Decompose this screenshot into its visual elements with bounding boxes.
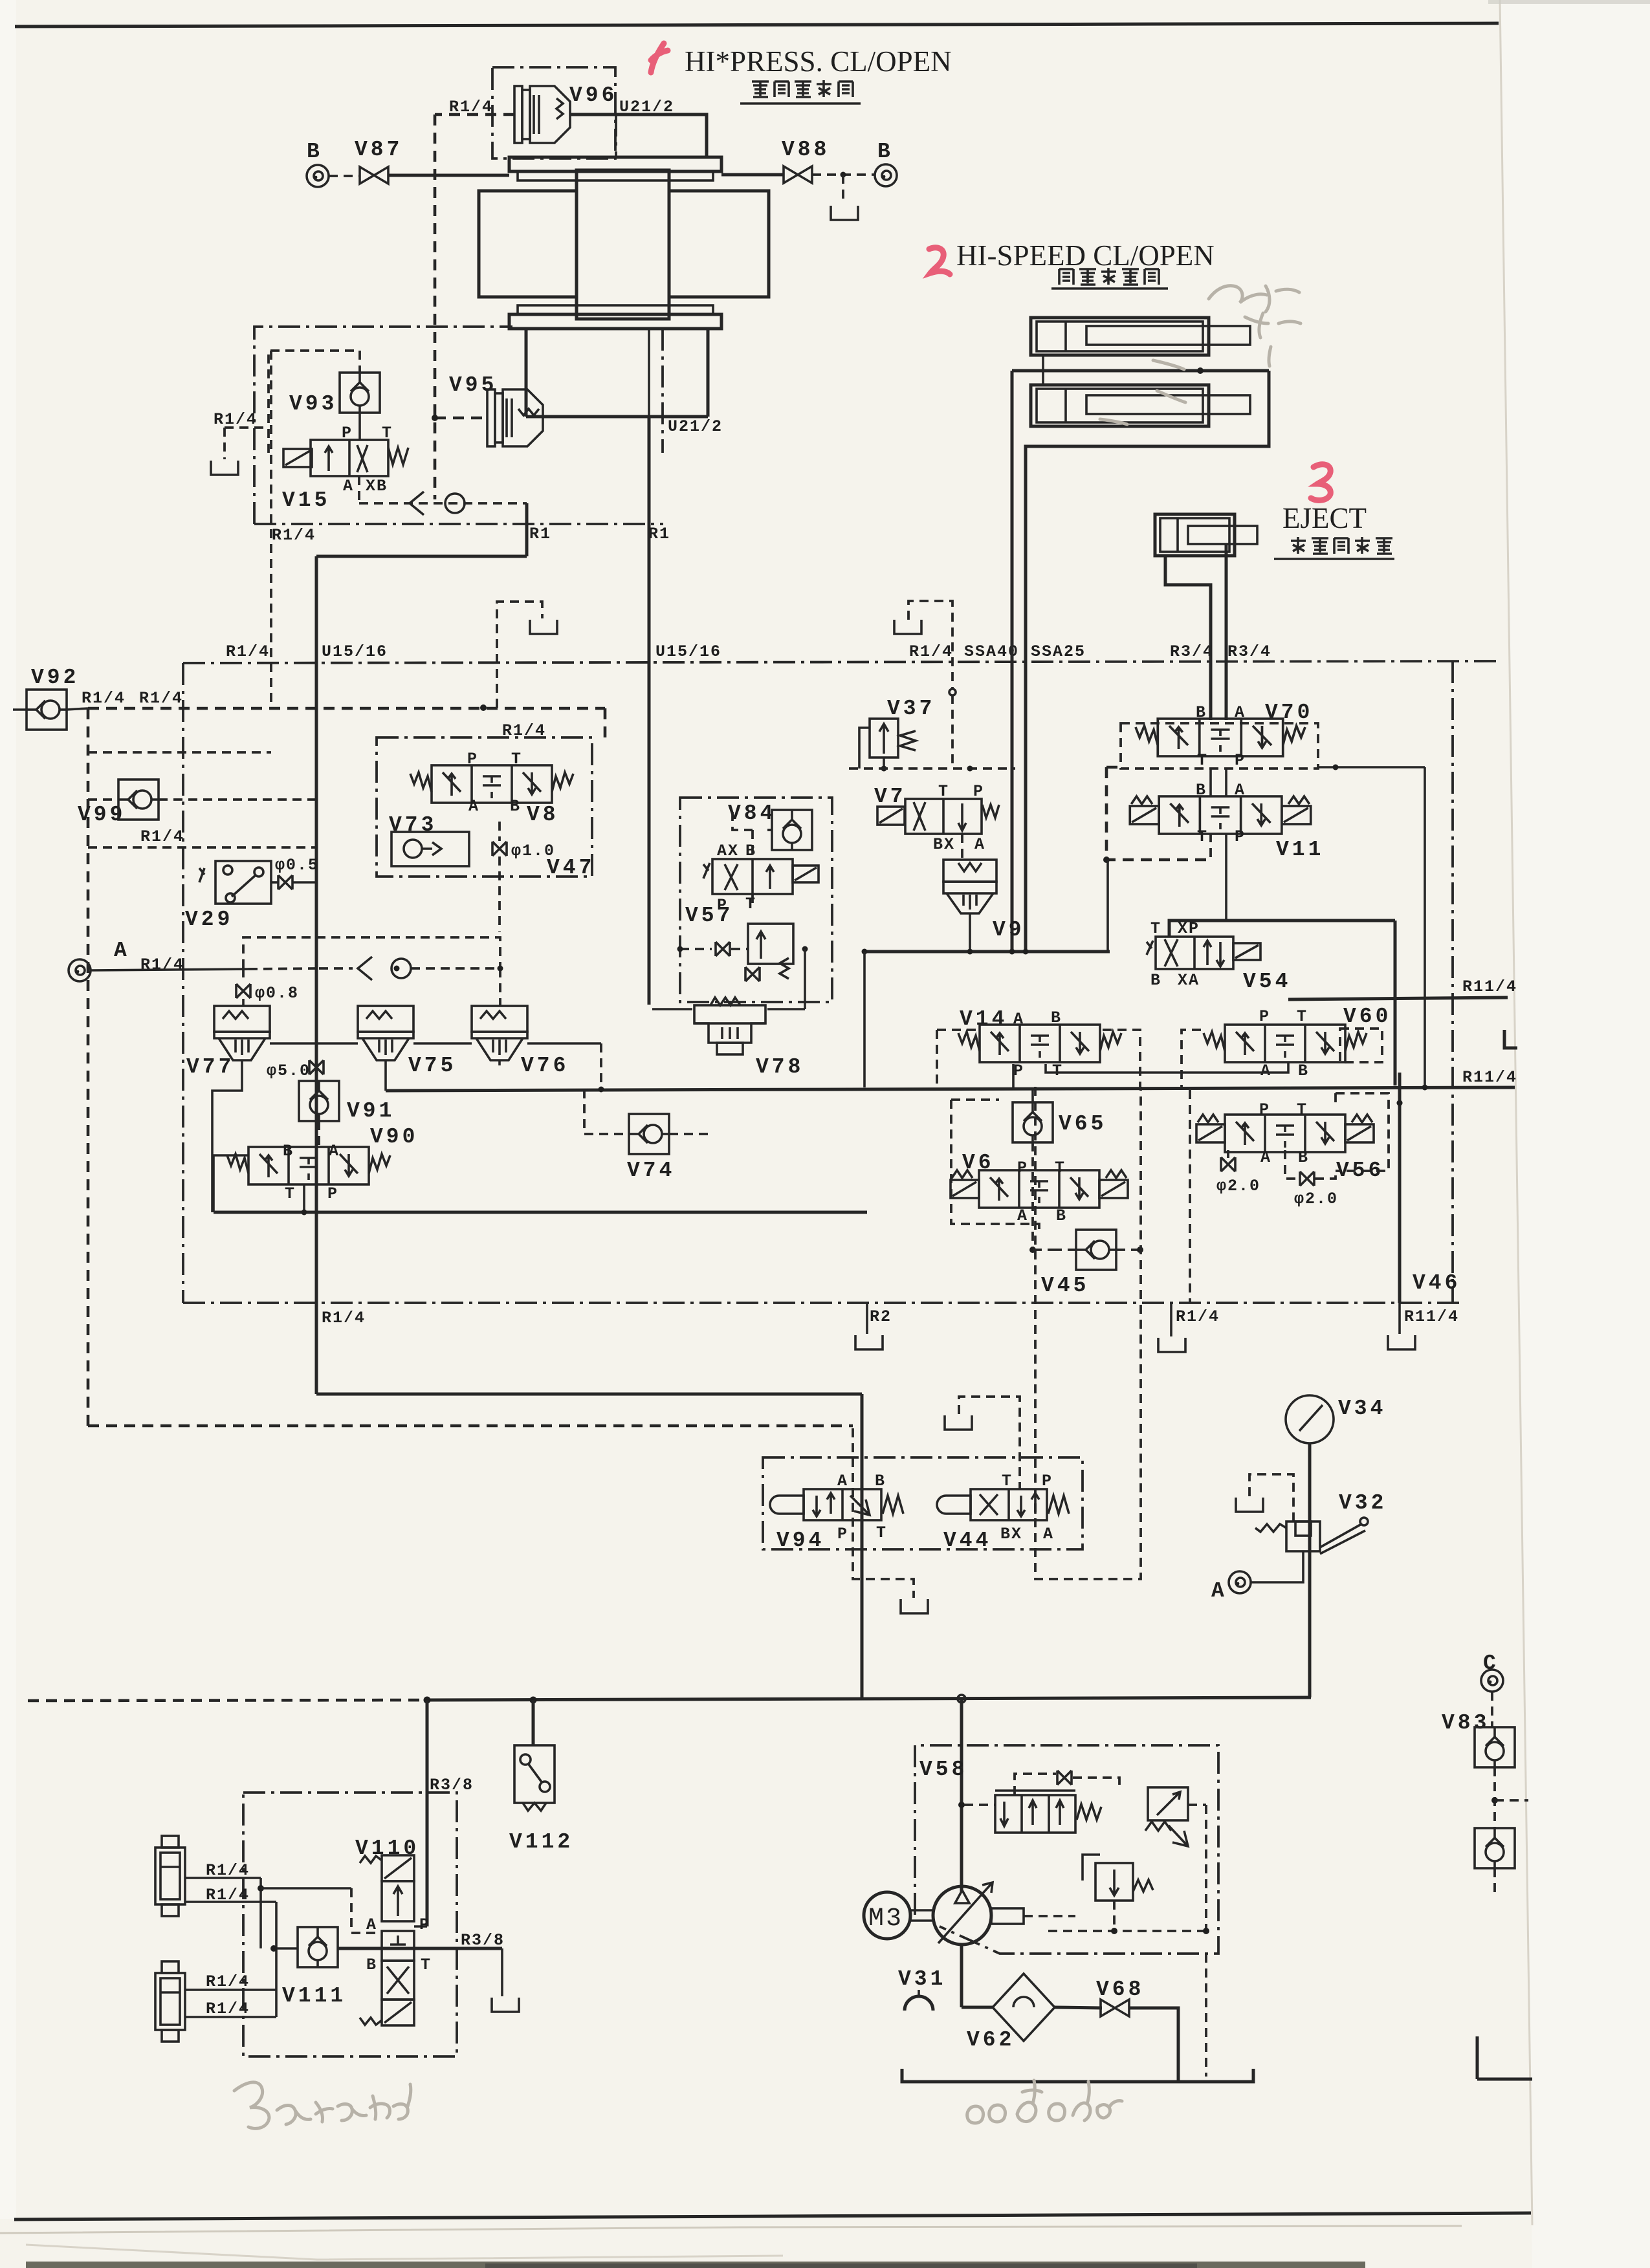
- svg-text:B: B: [1056, 1206, 1067, 1225]
- svg-text:B: B: [510, 797, 521, 816]
- svg-text:A: A: [1013, 1010, 1024, 1029]
- svg-text:B: B: [283, 1142, 294, 1161]
- svg-text:R3/8: R3/8: [461, 1931, 505, 1950]
- svg-text:V76: V76: [521, 1054, 569, 1078]
- svg-text:HI*PRESS. CL/OPEN: HI*PRESS. CL/OPEN: [685, 45, 952, 78]
- svg-text:V112: V112: [509, 1830, 573, 1854]
- svg-text:R11/4: R11/4: [1404, 1307, 1459, 1326]
- svg-text:V111: V111: [282, 1984, 346, 2008]
- svg-text:T: T: [1197, 827, 1208, 846]
- svg-text:B: B: [1196, 781, 1207, 800]
- svg-text:P: P: [1017, 1159, 1028, 1177]
- svg-text:V31: V31: [898, 1967, 946, 1991]
- svg-text:P: P: [717, 896, 728, 915]
- svg-text:P: P: [419, 1915, 430, 1934]
- svg-text:V37: V37: [887, 697, 935, 721]
- svg-text:HI-SPEED CL/OPEN: HI-SPEED CL/OPEN: [956, 239, 1215, 272]
- svg-text:R1: R1: [648, 525, 670, 543]
- svg-text:V60: V60: [1343, 1005, 1391, 1029]
- svg-text:T: T: [382, 424, 393, 442]
- svg-text:V93: V93: [289, 392, 337, 416]
- svg-text:T: T: [876, 1523, 887, 1542]
- svg-text:T: T: [938, 782, 949, 801]
- svg-text:R1/4: R1/4: [140, 955, 184, 974]
- svg-text:φ0.8: φ0.8: [255, 984, 299, 1003]
- svg-text:R1/4: R1/4: [502, 721, 546, 740]
- svg-text:V62: V62: [967, 2028, 1015, 2052]
- svg-text:A: A: [366, 1915, 377, 1934]
- svg-text:T: T: [1297, 1007, 1308, 1026]
- svg-text:P: P: [973, 782, 984, 801]
- svg-text:V7: V7: [874, 785, 907, 809]
- svg-text:T: T: [1197, 751, 1208, 770]
- svg-text:B: B: [1298, 1148, 1309, 1167]
- svg-text:A: A: [1235, 703, 1246, 722]
- svg-text:XP: XP: [1178, 919, 1200, 938]
- svg-text:R1/4: R1/4: [909, 642, 953, 661]
- svg-text:AX: AX: [717, 842, 739, 860]
- svg-text:P: P: [1042, 1472, 1053, 1490]
- svg-text:P: P: [1235, 751, 1246, 770]
- svg-text:A: A: [329, 1142, 340, 1161]
- svg-text:φ1.0: φ1.0: [511, 842, 555, 860]
- svg-text:T: T: [1002, 1472, 1013, 1490]
- svg-text:R1/4: R1/4: [140, 827, 184, 846]
- svg-text:V68: V68: [1096, 1978, 1144, 2001]
- svg-text:V44: V44: [943, 1529, 991, 1553]
- svg-text:R3/8: R3/8: [430, 1776, 474, 1794]
- svg-text:T: T: [421, 1956, 432, 1974]
- svg-text:φ0.5: φ0.5: [275, 856, 319, 875]
- svg-text:A: A: [1260, 1062, 1271, 1080]
- svg-text:B: B: [1150, 971, 1161, 990]
- svg-text:A: A: [1211, 1579, 1227, 1603]
- svg-text:V95: V95: [449, 373, 497, 397]
- svg-text:φ2.0: φ2.0: [1294, 1190, 1338, 1208]
- svg-text:V84: V84: [728, 801, 776, 825]
- svg-text:R1/4: R1/4: [1176, 1307, 1220, 1326]
- svg-text:V91: V91: [347, 1099, 395, 1123]
- svg-text:V58: V58: [919, 1758, 967, 1782]
- svg-text:R1/4: R1/4: [226, 642, 270, 661]
- svg-text:φ5.0: φ5.0: [267, 1062, 311, 1080]
- svg-text:V77: V77: [186, 1055, 234, 1079]
- svg-text:T: T: [285, 1184, 296, 1203]
- svg-text:M3: M3: [868, 1904, 903, 1934]
- svg-text:R1/4: R1/4: [139, 689, 183, 708]
- svg-text:A: A: [1017, 1206, 1028, 1225]
- svg-text:A: A: [1043, 1525, 1054, 1543]
- svg-text:P: P: [467, 750, 478, 769]
- svg-text:R11/4: R11/4: [1462, 1068, 1517, 1087]
- svg-text:T: T: [745, 895, 756, 913]
- svg-text:P: P: [1235, 827, 1246, 846]
- svg-text:V32: V32: [1339, 1491, 1387, 1515]
- svg-text:V73: V73: [389, 813, 437, 837]
- svg-text:B: B: [366, 1956, 377, 1974]
- svg-text:V45: V45: [1041, 1274, 1089, 1298]
- svg-text:V74: V74: [627, 1159, 675, 1183]
- svg-text:P: P: [1259, 1007, 1270, 1026]
- svg-text:U15/16: U15/16: [322, 642, 388, 661]
- svg-text:A: A: [974, 835, 985, 854]
- svg-text:P: P: [837, 1525, 848, 1543]
- svg-text:R1/4: R1/4: [82, 689, 126, 708]
- svg-text:φ2.0: φ2.0: [1216, 1177, 1260, 1195]
- svg-text:U15/16: U15/16: [655, 642, 721, 661]
- svg-text:V14: V14: [960, 1007, 1007, 1031]
- svg-text:V46: V46: [1413, 1271, 1460, 1295]
- svg-text:U21/2: U21/2: [668, 417, 723, 436]
- svg-text:R1/4: R1/4: [214, 410, 258, 429]
- svg-text:R3/4: R3/4: [1227, 642, 1271, 661]
- svg-text:T: T: [511, 750, 522, 769]
- svg-text:A: A: [1260, 1148, 1271, 1167]
- svg-text:V75: V75: [408, 1054, 456, 1078]
- svg-text:V15: V15: [282, 488, 330, 512]
- svg-text:V8: V8: [527, 803, 559, 827]
- svg-text:P: P: [1259, 1100, 1270, 1119]
- svg-text:V92: V92: [31, 666, 79, 690]
- svg-text:T: T: [1150, 919, 1161, 938]
- svg-text:V54: V54: [1243, 970, 1291, 994]
- svg-text:V83: V83: [1442, 1711, 1490, 1735]
- svg-text:SSA25: SSA25: [1031, 642, 1086, 661]
- svg-text:XA: XA: [1178, 971, 1200, 990]
- svg-text:R2: R2: [870, 1307, 892, 1326]
- svg-text:V88: V88: [782, 138, 830, 162]
- svg-text:R1/4: R1/4: [206, 2000, 250, 2018]
- svg-text:EJECT: EJECT: [1282, 502, 1367, 534]
- svg-text:P: P: [327, 1184, 338, 1203]
- svg-text:BX: BX: [1000, 1525, 1022, 1543]
- svg-text:R1/4: R1/4: [272, 526, 316, 545]
- svg-text:T: T: [1055, 1159, 1066, 1177]
- svg-text:A: A: [343, 477, 354, 496]
- svg-text:T: T: [1297, 1100, 1308, 1119]
- svg-text:V29: V29: [185, 908, 233, 932]
- svg-text:R1/4: R1/4: [322, 1309, 366, 1327]
- svg-text:V34: V34: [1338, 1397, 1386, 1421]
- svg-text:A: A: [837, 1472, 848, 1490]
- svg-text:V87: V87: [355, 138, 402, 162]
- svg-text:B: B: [877, 140, 894, 164]
- svg-text:R3/4: R3/4: [1170, 642, 1214, 661]
- svg-text:V94: V94: [776, 1529, 824, 1553]
- svg-text:V9: V9: [993, 918, 1025, 942]
- svg-text:B: B: [875, 1472, 886, 1490]
- svg-text:V70: V70: [1265, 701, 1313, 725]
- svg-text:B: B: [307, 140, 323, 164]
- svg-text:A: A: [1235, 781, 1246, 800]
- svg-text:A: A: [114, 939, 130, 963]
- svg-text:V96: V96: [569, 83, 617, 107]
- svg-text:B: B: [1298, 1062, 1309, 1080]
- svg-text:B: B: [745, 842, 756, 860]
- svg-text:V11: V11: [1276, 838, 1324, 862]
- svg-text:R11/4: R11/4: [1462, 977, 1517, 996]
- svg-text:BX: BX: [933, 835, 955, 854]
- svg-text:XB: XB: [366, 477, 388, 496]
- svg-text:V78: V78: [756, 1055, 804, 1079]
- svg-text:V90: V90: [370, 1125, 418, 1149]
- svg-text:P: P: [342, 424, 353, 442]
- svg-text:V65: V65: [1059, 1112, 1106, 1136]
- svg-text:B: B: [1196, 703, 1207, 722]
- svg-text:R1/4: R1/4: [206, 1972, 250, 1991]
- svg-text:A: A: [468, 797, 479, 816]
- svg-text:R1: R1: [529, 525, 551, 543]
